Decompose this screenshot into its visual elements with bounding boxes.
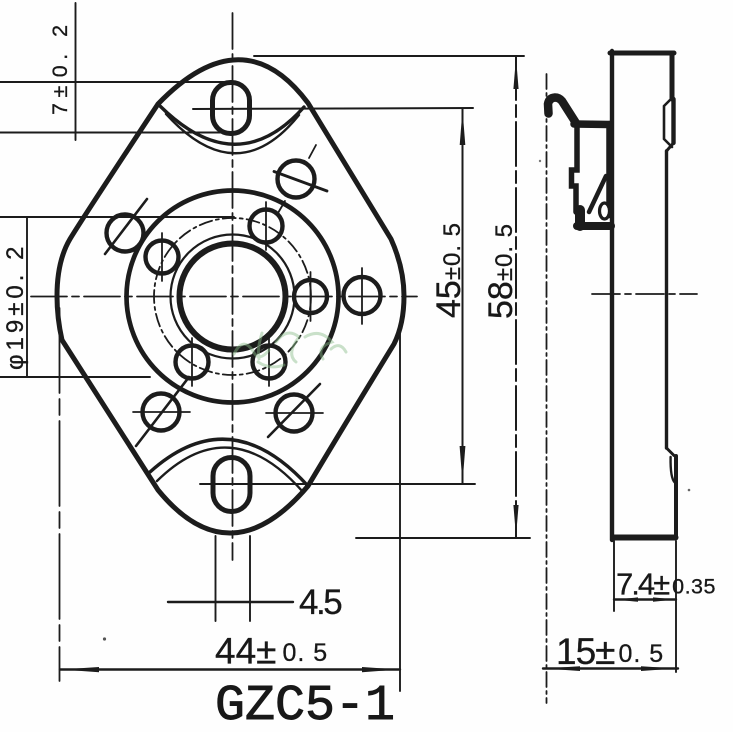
dim 7 extension line top [0,81,224,83]
dim phi19 extension line top [0,216,234,218]
bottom mounting slot [213,458,250,512]
rivet hole X1 [107,215,144,252]
pin circle (dash-dot) [154,218,311,375]
pin hole P2 [146,241,179,274]
vertical centerline front view [232,13,234,560]
socket inner circle [171,235,295,359]
svg-text:7.4±0.35: 7.4±0.35 [616,567,716,602]
clip right edge (merged with body) [606,124,613,215]
clip foot left block [575,210,585,226]
pin P5 tick [268,338,270,386]
pin P3 tick [310,272,312,321]
rivet hole X4 tick [133,411,190,413]
scan speck near side view [688,489,691,492]
top saddle arc outer [160,106,304,144]
rivet hole X2 [278,161,315,198]
dim 7 extension line bottom [0,132,221,134]
dim 7.4 arrow left [615,597,638,601]
svg-text:45±0. 5: 45±0. 5 [430,222,468,318]
dim 4.5 extension left [215,536,217,621]
dim 44 line [60,668,400,670]
central hole circle [180,244,286,350]
side view horizontal centerline [592,293,697,295]
side view body left edge [610,51,614,540]
top mounting slot [213,83,250,134]
side view vertical dash-dot line [546,74,548,703]
rivet hole X5 slash [268,384,320,437]
side view right edge lower [674,456,678,537]
side view right edge middle [665,151,668,448]
flange outline (front view) [57,60,404,533]
svg-text:4.5: 4.5 [299,583,341,622]
pin hole P1 [250,210,283,243]
rivet hole X3 vertical tick [361,268,363,324]
side view right edge step [667,143,674,151]
dim 58 extension top [254,55,524,57]
dim 7.4 extension left [613,541,615,611]
dim 7.4 arrow right [653,597,676,601]
side view body right edge upper [670,53,675,99]
dim 58 arrow top [513,58,518,90]
side view body bottom edge [613,535,676,541]
dim 4.5 extension right [249,536,251,621]
dim 7 line [75,3,77,140]
pin hole P3 [294,280,327,313]
dim 58 extension bottom [356,537,530,539]
svg-text:φ19±0. 2: φ19±0. 2 [2,243,29,370]
dim 45 arrow top [460,110,466,146]
dim 58 arrow bottom [513,505,518,537]
rivet hole X2 slash [274,172,327,192]
pin hole P4 [176,346,209,379]
pin P2 tick [161,233,163,281]
side view lower key slot [671,457,675,483]
dim 7.4 line [614,598,676,600]
bottom saddle arc outer [150,439,308,486]
dim 44 extension right [399,330,401,691]
svg-text:44±0. 5: 44±0. 5 [215,631,328,672]
rivet hole X1 slash [105,199,147,254]
socket outer circle [127,191,339,403]
side view right edge at upper slot [671,99,675,143]
slot centerline bottom / dim45 extension bottom [200,483,475,485]
svg-text:58±0. 5: 58±0. 5 [482,223,520,319]
svg-text:GZC5-1: GZC5-1 [215,678,395,732]
svg-text:15±0. 5: 15±0. 5 [556,631,664,672]
dim 45 line [462,109,464,485]
bottom saddle arc inner [157,448,303,492]
dim phi19 line [26,217,28,377]
scan speck right of slot line [539,160,541,162]
clip left edge [572,123,578,212]
rivet hole X5 [276,395,313,432]
clip hook [548,98,576,124]
dim 44 arrow left [61,667,99,672]
side view lower key chamfer [667,448,675,456]
pin P4 tick [191,338,193,386]
dim 45 arrow bottom [460,446,466,483]
clip foot notch [600,203,610,219]
clip top bar [574,120,609,128]
scan speck near 44 dim [103,637,106,640]
dim 15 arrow left [544,666,580,671]
side view body top edge [610,51,674,56]
dim 58 line [515,56,517,538]
rivet hole X4 [143,394,180,431]
dim 15 line [543,667,678,669]
rivet hole X2 radial stubs [278,145,316,213]
dim 44 arrow right [362,667,399,672]
pin hole P5 [253,346,286,379]
clip foot bottom bar [577,222,611,230]
rivet hole X4 slash [136,377,189,446]
watermark green strokes [234,333,346,367]
horizontal centerline front view [31,296,417,298]
rivet hole X5 tick [266,412,323,414]
svg-text:7±0. 2: 7±0. 2 [48,19,72,115]
dim 15 arrow right [641,666,676,671]
top saddle arc inner [166,114,299,153]
dim 44 extension left [59,308,61,681]
clip inner slant [589,176,606,212]
dim 4.5 line [168,601,293,603]
side view upper key slot [664,98,672,147]
dim 7.4 extension right [675,541,677,672]
pin P1 tick [265,202,267,250]
slot centerline top / dim 45 extension top [193,108,473,109]
dim phi19 extension line bottom [0,376,150,378]
rivet hole X3 [344,277,381,314]
